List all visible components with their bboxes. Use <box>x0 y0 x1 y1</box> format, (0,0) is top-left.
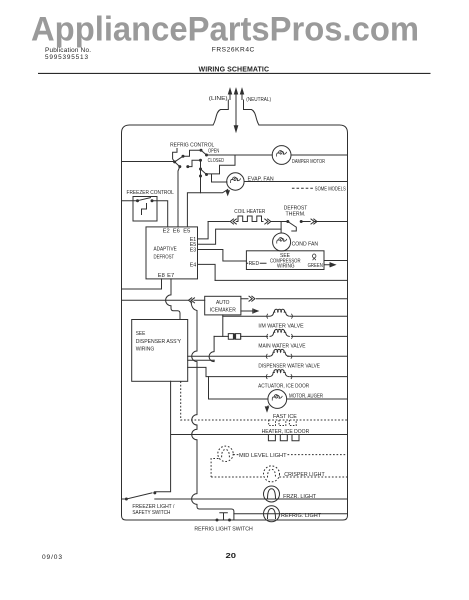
svg-text:09/03: 09/03 <box>42 554 62 561</box>
svg-text:FRZR. LIGHT: FRZR. LIGHT <box>283 494 317 500</box>
wire RED lead inside compressor box <box>246 262 266 264</box>
defrost thermostat blade and symbol <box>288 222 297 232</box>
svg-text:ACTUATOR, ICE DOOR: ACTUATOR, ICE DOOR <box>258 384 309 390</box>
node dots freezer light switch <box>125 491 156 500</box>
svg-text:E2: E2 <box>163 229 170 235</box>
svg-text:DISPENSER WATER VALVE: DISPENSER WATER VALVE <box>258 363 320 369</box>
node dots refrig control <box>173 160 176 163</box>
wire to defrost thermostat <box>271 221 288 223</box>
wire freezer light line <box>122 498 348 500</box>
svg-text:E4: E4 <box>190 263 197 269</box>
vertical feeder with hops to refrig light switch <box>191 300 234 520</box>
freezer control blade <box>138 198 151 201</box>
svg-text:CRISPER LIGHT: CRISPER LIGHT <box>284 472 325 478</box>
power cord plug outline <box>213 100 259 125</box>
svg-text:EVAP. FAN: EVAP. FAN <box>248 177 274 183</box>
svg-text:ICEMAKER: ICEMAKER <box>210 307 236 313</box>
node dots refrig light switch <box>216 519 232 522</box>
connector chevrons left of coil heater <box>230 219 236 224</box>
wire E1 to coil heater line <box>198 222 209 239</box>
svg-text:SAFETY SWITCH: SAFETY SWITCH <box>132 510 170 516</box>
svg-text:Publication No.: Publication No. <box>45 47 91 54</box>
wire auger motor feed <box>209 377 348 399</box>
svg-text:SOME MODELS: SOME MODELS <box>315 187 346 193</box>
svg-text:REFRIG. LIGHT: REFRIG. LIGHT <box>281 513 322 519</box>
freezer light safety switch blade <box>126 493 152 499</box>
plug prong arrows (line, ground, neutral) <box>230 94 242 101</box>
wire I/M water valve line <box>223 315 348 317</box>
damper motor M1 <box>272 146 291 165</box>
heater element coil heater <box>236 216 263 222</box>
wire dispenser box to actuator line <box>188 367 348 376</box>
svg-text:DAMPER MOTOR: DAMPER MOTOR <box>292 159 325 165</box>
svg-text:I/M WATER VALVE: I/M WATER VALVE <box>258 323 303 329</box>
svg-text:E6: E6 <box>173 229 180 235</box>
connector chevrons icemaker out <box>249 296 255 301</box>
wire left bus to refrig control <box>122 161 175 163</box>
svg-text:OPEN: OPEN <box>208 149 219 155</box>
solenoid coil dispenser water valve <box>270 349 289 356</box>
svg-text:GREEN: GREEN <box>308 263 323 269</box>
svg-text:ADAPTIVE: ADAPTIVE <box>154 247 177 253</box>
svg-text:COND FAN: COND FAN <box>292 242 319 248</box>
svg-text:DEFROST: DEFROST <box>154 254 175 260</box>
svg-text:RED: RED <box>249 261 260 267</box>
wire refrig light line <box>234 513 348 515</box>
freezer control inner symbol <box>142 204 147 215</box>
evap fan motor M2 <box>187 173 347 227</box>
auto icemaker box <box>205 296 241 315</box>
connector plug icemaker lower <box>241 309 253 313</box>
header rule <box>38 72 431 74</box>
wire left bus to icemaker <box>122 299 205 301</box>
connector chevrons icemaker feed <box>189 298 195 303</box>
main schematic outline box <box>122 125 348 520</box>
cond fan motor M3 <box>273 233 291 251</box>
svg-text:WIRING: WIRING <box>277 264 295 270</box>
connector arrow below auger motor <box>267 406 268 408</box>
connector arrow below evap fan <box>227 189 229 191</box>
node dots defrost thermostat <box>286 220 302 223</box>
refrig light L4 <box>264 506 280 522</box>
compressor ground symbol <box>313 254 316 260</box>
node dots freezer control <box>136 199 154 202</box>
wire icemaker bottom pin down <box>222 315 224 337</box>
wire compressor shell to right edge <box>324 260 348 262</box>
wire E5 pin to cond fan <box>198 229 282 244</box>
wire closed contact to evap fan <box>201 155 236 192</box>
svg-text:REFRIG CONTROL: REFRIG CONTROL <box>170 142 215 148</box>
dashed wire mid light drop to crisper line <box>211 459 218 478</box>
svg-text:MAIN WATER VALVE: MAIN WATER VALVE <box>258 343 305 349</box>
svg-text:FRS26KR4C: FRS26KR4C <box>212 47 255 54</box>
svg-text:SEE: SEE <box>136 331 146 337</box>
frzr light L3 <box>264 486 280 502</box>
solenoid coil actuator ice door <box>270 370 289 377</box>
svg-text:(LINE): (LINE) <box>209 96 228 102</box>
auger motor M4 <box>265 390 286 412</box>
solenoid coil I/M water valve <box>270 309 289 316</box>
svg-text:CLOSED: CLOSED <box>208 158 224 164</box>
wire freezer control to E2 <box>152 201 168 227</box>
svg-text:FAST ICE: FAST ICE <box>273 414 297 420</box>
mid level light L1 (dashed, some models) <box>211 446 347 482</box>
svg-text:E8: E8 <box>158 273 165 279</box>
refrig control switch blades <box>175 150 207 176</box>
connector chevrons right of coil heater <box>265 219 271 224</box>
svg-text:DISPENSER ASS'Y: DISPENSER ASS'Y <box>136 339 181 345</box>
svg-text:REFRIG LIGHT SWITCH: REFRIG LIGHT SWITCH <box>194 527 252 533</box>
heater element ice door <box>268 435 299 441</box>
wire E4 pin to neutral bus <box>198 264 216 280</box>
svg-text:(NEUTRAL): (NEUTRAL) <box>246 97 271 103</box>
wire dispenser box to main water valve riser <box>188 359 214 361</box>
dashed wire mid level light to right edge <box>233 454 347 456</box>
freezer control box <box>133 197 157 222</box>
svg-text:FREEZER CONTROL: FREEZER CONTROL <box>127 190 175 196</box>
wire evap fan return to E5 <box>187 190 227 227</box>
svg-text:WIRING SCHEMATIC: WIRING SCHEMATIC <box>199 66 270 73</box>
svg-text:COIL HEATER: COIL HEATER <box>234 209 265 215</box>
wire E3 pin to compressor RED <box>198 250 247 262</box>
wire neutral bus <box>215 279 347 281</box>
wire E7 vertical from dispenser box bottom to freezer switch <box>155 381 171 492</box>
wire damper motor line <box>207 154 348 156</box>
svg-text:E5: E5 <box>183 229 190 235</box>
svg-text:E7: E7 <box>167 273 174 279</box>
wire E7 drop with hop into dispenser box <box>166 279 180 320</box>
adaptive defrost control board U1 <box>146 227 198 279</box>
connector green lead <box>324 263 330 267</box>
solenoid coil main water valve <box>270 330 289 337</box>
wire E8 return to left edge <box>122 279 162 289</box>
dashed wire fast ice from dispenser box <box>181 381 269 420</box>
wire heater ice door line <box>171 434 348 436</box>
refrig control thermostat symbol <box>173 149 177 162</box>
compressor box <box>246 251 324 270</box>
wire dispenser water valve line <box>188 355 348 357</box>
freezer control <box>122 197 168 227</box>
svg-text:MOTOR, AUGER: MOTOR, AUGER <box>289 394 323 400</box>
svg-text:AUTO: AUTO <box>216 300 230 306</box>
wire left bus to freezer control <box>122 200 138 202</box>
svg-text:HEATER, ICE DOOR: HEATER, ICE DOOR <box>262 429 310 435</box>
wire coil heater left with connector <box>208 221 229 223</box>
wire E6 drop from refrig control <box>178 167 180 227</box>
svg-text:5995395513: 5995395513 <box>45 54 88 61</box>
riser main water valve with hop <box>213 336 215 361</box>
dashed wire crisper light line <box>211 476 347 478</box>
svg-text:THERM.: THERM. <box>286 212 306 218</box>
svg-text:20: 20 <box>226 551 237 560</box>
dashed heater element fast ice <box>269 420 296 426</box>
svg-text:AppliancePartsPros.com: AppliancePartsPros.com <box>31 11 419 49</box>
connector plug main water valve <box>228 334 240 340</box>
wire defrost therm to right edge with connector <box>301 221 347 223</box>
svg-text:E3: E3 <box>190 248 197 254</box>
wire junction defrost therm to cond fan <box>280 222 282 234</box>
crisper light L2 (dashed) <box>264 466 280 482</box>
wire evap fan to right edge <box>244 181 347 183</box>
legend dashes SOME MODELS <box>292 187 313 189</box>
dispenser assembly box <box>132 320 188 382</box>
svg-text:MID LEVEL LIGHT: MID LEVEL LIGHT <box>239 453 287 459</box>
refrig light switch push symbol <box>220 513 228 520</box>
wire main water valve line <box>214 335 347 337</box>
svg-text:WIRING: WIRING <box>136 346 155 352</box>
line cord down arrow into box <box>235 100 237 126</box>
wire icemaker to right edge <box>241 298 348 300</box>
